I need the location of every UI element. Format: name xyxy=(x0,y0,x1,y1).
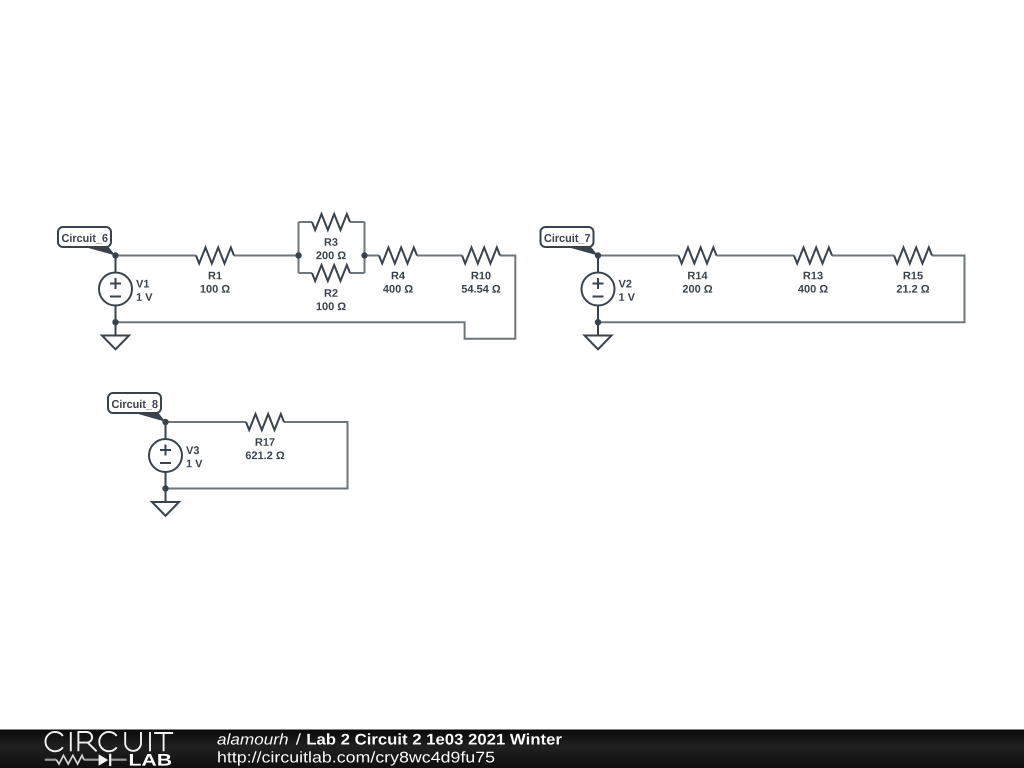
label R1 value xyxy=(209,272,222,280)
wire V1 top lead xyxy=(115,256,117,273)
wire R14 to R13 xyxy=(717,255,795,257)
footer url text xyxy=(218,751,494,765)
wire ground lead xyxy=(165,489,167,503)
wire ground lead xyxy=(597,322,599,335)
wire parallel top rail right xyxy=(350,221,365,223)
label V2 value xyxy=(619,280,632,288)
node H junction dot (V3 bottom) xyxy=(162,485,168,491)
wire V3 bottom lead xyxy=(165,472,167,489)
wire parallel right vertical xyxy=(364,222,366,273)
CircuitLab logo: LAB wordmark xyxy=(130,754,171,766)
label R4 value xyxy=(392,272,405,280)
voltage source V3 xyxy=(149,439,182,472)
wire node G to R17 xyxy=(166,421,247,423)
resistor R3 xyxy=(312,214,350,230)
label V1 value xyxy=(136,280,149,288)
node A junction dot xyxy=(112,252,118,258)
net flag Circuit_7 xyxy=(541,227,599,256)
logo diode xyxy=(99,754,109,766)
ground xyxy=(585,336,612,350)
wire V2 bottom lead xyxy=(597,306,599,323)
label R10 value xyxy=(472,272,491,280)
wire V1 bottom lead xyxy=(115,306,117,323)
node D junction dot (V1 bottom) xyxy=(112,319,118,325)
voltage source V1 xyxy=(99,273,132,306)
ground xyxy=(102,336,129,350)
wire ground lead xyxy=(115,322,117,335)
wire parallel top rail left xyxy=(299,221,313,223)
node F junction dot (V2 bottom) xyxy=(595,319,601,325)
resistor R2 xyxy=(312,265,350,281)
wire V3 top lead xyxy=(165,422,167,439)
label R13 value xyxy=(804,272,823,280)
net flag Circuit_8 xyxy=(108,393,166,422)
node C junction dot (right of parallel) xyxy=(361,252,367,258)
resistor R4 xyxy=(379,248,417,264)
wire parallel bottom rail left xyxy=(299,272,313,274)
label R3 value xyxy=(325,238,338,246)
resistor R10 xyxy=(462,248,500,264)
node E junction dot xyxy=(595,252,601,258)
resistor R14 xyxy=(679,248,717,264)
wire R10 to right corner and return path xyxy=(116,256,516,339)
label V3 value xyxy=(186,446,199,454)
wire parallel bottom rail right xyxy=(350,272,365,274)
node B junction dot (left of parallel) xyxy=(295,252,301,258)
wire node E to R14 xyxy=(598,255,679,257)
label R17 value xyxy=(256,438,275,446)
label R14 value xyxy=(688,272,707,280)
wire node A to R1 xyxy=(116,255,197,257)
CircuitLab logo: CIRCUIT wordmark xyxy=(45,732,173,751)
wire parallel block to R4 xyxy=(365,255,380,257)
resistor R17 xyxy=(246,414,284,430)
label R2 value xyxy=(325,289,338,297)
wire R13 to R15 xyxy=(832,255,894,257)
label R15 value xyxy=(904,272,923,280)
wire R1 to parallel block xyxy=(234,255,299,257)
resistor R15 xyxy=(894,248,932,264)
CircuitLab logo: resistor-diode symbol xyxy=(45,759,127,761)
wire R15 to right corner and return path xyxy=(598,256,965,323)
ground xyxy=(152,502,179,516)
wire R4 to R10 xyxy=(417,255,462,257)
resistor R13 xyxy=(794,248,832,264)
net flag Circuit_6 xyxy=(58,227,116,256)
node G junction dot xyxy=(162,419,168,425)
resistor R1 xyxy=(196,248,234,264)
footer title text xyxy=(217,733,287,744)
voltage source V2 xyxy=(582,273,615,306)
wire R17 to right corner and return path xyxy=(166,422,348,489)
wire V2 top lead xyxy=(597,256,599,273)
wire parallel left vertical xyxy=(298,222,300,273)
